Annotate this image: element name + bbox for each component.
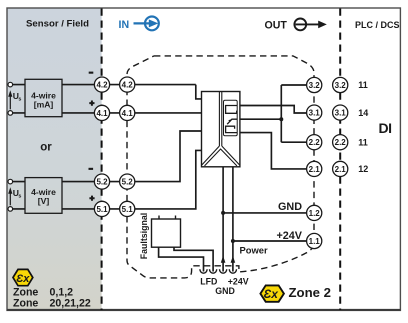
Us arrow 1 — [9, 97, 11, 110]
field terminal circle bottom2 — [8, 207, 13, 212]
svg-text:Ɛx: Ɛx — [16, 273, 30, 285]
terminal 3.2 plc — [333, 77, 348, 92]
4-wire source box 1 [mA] — [25, 79, 62, 116]
svg-text:Faultsignal: Faultsignal — [139, 213, 149, 259]
svg-text:5.1: 5.1 — [96, 205, 108, 214]
svg-text:4.1: 4.1 — [96, 109, 108, 118]
wire: source box1 top to terminal 4.2 and into isolator — [13, 85, 202, 99]
faultsignal output box — [152, 219, 181, 247]
svg-text:3.1: 3.1 — [335, 109, 347, 118]
svg-text:IN: IN — [119, 19, 130, 31]
4-wire source box 2 [V] — [25, 178, 62, 214]
Ex symbol field zones — [13, 269, 33, 285]
svg-text:3.2: 3.2 — [309, 81, 321, 90]
terminal 1.1 device — [307, 233, 322, 248]
terminal 3.1 device — [307, 105, 322, 120]
wire: source box1 bottom to terminal 4.1 into isolator — [13, 112, 202, 114]
terminal 2.1 plc — [333, 161, 348, 176]
svg-text:Zone 2: Zone 2 — [289, 285, 332, 300]
zone boundary dashed line right — [339, 9, 341, 311]
polarity plus 1 — [89, 101, 94, 106]
svg-text:s: s — [18, 97, 21, 103]
wire: +24V rail to terminal 1.1 — [233, 240, 307, 242]
field terminal circle bottom1 — [8, 111, 13, 116]
relay contact lever — [227, 119, 237, 124]
junction +24V rail — [231, 239, 235, 243]
svg-text:4.2: 4.2 — [96, 81, 108, 90]
relay output box — [224, 100, 238, 136]
svg-text:3.1: 3.1 — [309, 109, 321, 118]
power arrow pin4 — [231, 256, 236, 263]
svg-text:Sensor / Field: Sensor / Field — [26, 19, 89, 30]
wire: source box2 bottom to terminal 5.1 into isolator — [13, 150, 202, 209]
power rail GND (pin3) — [222, 167, 224, 272]
wire: faultsignal to pin1 LFD — [159, 247, 204, 271]
svg-text:Zone: Zone — [13, 286, 38, 298]
plug pin socket 3 — [220, 269, 227, 273]
relay contact NC — [226, 126, 238, 132]
polarity minus 2 — [89, 168, 94, 170]
svg-text:[mA]: [mA] — [34, 99, 54, 109]
terminal 4.2 field — [94, 77, 109, 92]
polarity plus 2 — [89, 196, 94, 201]
field terminal circle top1 — [8, 82, 13, 87]
svg-text:12: 12 — [358, 164, 368, 174]
svg-text:2.2: 2.2 — [309, 138, 321, 147]
terminal 5.1 device — [120, 201, 135, 216]
terminal 5.2 field — [94, 174, 109, 189]
frame bottom edge — [7, 309, 400, 311]
Us arrow 2 — [9, 194, 11, 206]
svg-text:Ɛx: Ɛx — [264, 287, 280, 301]
svg-text:OUT: OUT — [265, 19, 288, 31]
faultsignal box top stubs — [159, 216, 176, 220]
terminal 3.1 plc — [333, 105, 348, 120]
svg-text:11: 11 — [358, 80, 368, 90]
svg-text:3.2: 3.2 — [335, 81, 347, 90]
junction relay COM — [279, 117, 283, 121]
svg-text:5.2: 5.2 — [122, 178, 134, 187]
junction GND rail — [221, 211, 225, 215]
svg-text:11: 11 — [358, 137, 368, 147]
plug pin socket 1 — [200, 269, 207, 273]
power rail +24V (pin4) — [232, 167, 234, 272]
isolator device dashed outline — [127, 56, 314, 278]
isolator body U1 — [202, 92, 240, 167]
terminal 5.2 device — [120, 174, 135, 189]
terminal 5.1 field — [94, 201, 109, 216]
svg-text:2.2: 2.2 — [335, 138, 347, 147]
wire: relay NO to terminal 3.1 — [240, 106, 307, 114]
terminal 2.2 device — [307, 135, 322, 150]
svg-text:5.2: 5.2 — [96, 178, 108, 187]
terminal 3.2 device — [307, 77, 322, 92]
OUT symbol — [294, 19, 319, 31]
Ex symbol zone 2 — [260, 285, 284, 301]
svg-text:2.1: 2.1 — [335, 165, 347, 174]
wire: GND rail to terminal 1.2 — [223, 212, 307, 214]
isolation barrier Y symbol — [202, 92, 240, 166]
terminal 2.1 device — [307, 161, 322, 176]
svg-text:or: or — [40, 142, 52, 154]
zone boundary dashed line left — [101, 9, 103, 311]
terminal 1.2 device — [307, 205, 322, 220]
plug pin socket 4 — [229, 269, 236, 273]
svg-text:0,1,2: 0,1,2 — [50, 286, 74, 298]
svg-text:14: 14 — [358, 108, 368, 118]
sensor/field panel — [7, 8, 102, 310]
svg-text:20,21,22: 20,21,22 — [50, 298, 91, 310]
IN symbol — [134, 17, 159, 31]
svg-text:Power: Power — [240, 245, 268, 256]
svg-text:5.1: 5.1 — [122, 205, 134, 214]
svg-text:+24V: +24V — [276, 230, 302, 242]
terminal 4.1 device — [120, 105, 135, 120]
svg-text:GND: GND — [278, 201, 302, 213]
terminal 4.2 device — [120, 77, 135, 92]
svg-text:4.1: 4.1 — [122, 109, 134, 118]
svg-text:[V]: [V] — [38, 196, 50, 206]
field terminal circle top2 — [8, 179, 13, 184]
terminal 2.2 plc — [333, 135, 348, 150]
svg-text:1.2: 1.2 — [309, 209, 321, 218]
svg-text:Zone: Zone — [13, 298, 38, 310]
wire: relay COM to terminals 3.2 and 2.2 — [240, 85, 307, 142]
wire: relay NC to terminal 2.1 — [240, 133, 307, 169]
svg-text:2.1: 2.1 — [309, 165, 321, 174]
svg-text:DI: DI — [379, 120, 392, 136]
wire: source box2 top to terminal 5.2 into isolator — [13, 131, 202, 182]
svg-text:PLC / DCS: PLC / DCS — [355, 20, 400, 30]
svg-text:4.2: 4.2 — [122, 81, 134, 90]
polarity minus 1 — [89, 72, 94, 74]
wire: faultsignal to pin2 GND — [174, 247, 213, 271]
svg-text:GND: GND — [215, 286, 235, 296]
plug pin socket 2 — [210, 269, 217, 273]
terminal 4.1 field — [94, 105, 109, 120]
relay contact NO — [226, 106, 238, 114]
svg-text:1.1: 1.1 — [309, 237, 321, 246]
power arrow pin3 — [221, 256, 226, 263]
svg-text:s: s — [18, 194, 21, 200]
